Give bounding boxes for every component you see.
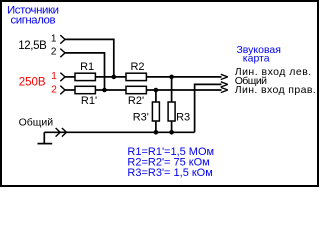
svg-text:Лин. вход прав.: Лин. вход прав. bbox=[235, 84, 316, 96]
node C junction rail1/R3 bbox=[169, 75, 174, 80]
wire: rail1 right segment R2 to arrow bbox=[146, 76, 221, 78]
resistor R2' bbox=[126, 86, 146, 93]
resistor R3' bbox=[152, 102, 159, 121]
svg-text:R2': R2' bbox=[128, 95, 144, 107]
wire: rail2 left segment R1' to R2' bbox=[95, 89, 126, 91]
resistor R1' bbox=[75, 86, 95, 93]
svg-text:1: 1 bbox=[51, 34, 57, 45]
ground bbox=[38, 132, 53, 143]
wire: R3 vertical feed bbox=[171, 77, 173, 132]
wire: 250V pin1 to R1 bbox=[65, 76, 75, 78]
resistor R3 bbox=[168, 102, 175, 121]
svg-text:сигналов: сигналов bbox=[11, 14, 56, 26]
svg-text:12,5В: 12,5В bbox=[18, 40, 47, 52]
connector pin 12,5V-2 bbox=[60, 49, 65, 58]
arrow to line input right bbox=[221, 87, 228, 92]
wire: 12,5V pin1 to rail1 bbox=[65, 39, 114, 76]
connector pin 12,5V-1 bbox=[60, 35, 65, 44]
node D junction rail2/R3' bbox=[154, 88, 159, 93]
node F junction ground rail/R3 bbox=[169, 130, 174, 135]
svg-text:2: 2 bbox=[51, 85, 57, 96]
wire: rail2 right segment R2' to arrow bbox=[146, 89, 221, 91]
svg-text:Общий: Общий bbox=[19, 117, 54, 129]
svg-text:R3=R3'= 1,5 кОм: R3=R3'= 1,5 кОм bbox=[127, 167, 212, 179]
wire: 12,5V pin2 to rail2 bbox=[65, 53, 105, 89]
node E junction ground rail/R3' bbox=[154, 130, 159, 135]
wire: R3' vertical feed bbox=[155, 90, 157, 132]
wire: 250V pin2 to R1' bbox=[65, 89, 75, 91]
wire: common branch up to arrow bbox=[195, 84, 222, 132]
svg-text:R3: R3 bbox=[176, 112, 190, 124]
svg-text:250В: 250В bbox=[19, 77, 46, 89]
wire: rail1 left segment R1 to R2 bbox=[95, 76, 126, 78]
svg-text:карта: карта bbox=[243, 53, 270, 65]
svg-text:2: 2 bbox=[51, 47, 57, 58]
svg-text:R1: R1 bbox=[80, 61, 94, 73]
connector pin 250V-2 bbox=[60, 86, 65, 95]
wire: ground input stub bbox=[44, 131, 60, 133]
resistor R1 bbox=[75, 73, 95, 80]
svg-text:R1': R1' bbox=[81, 95, 97, 107]
connector pin 250V-1 bbox=[60, 73, 65, 82]
resistor R2 bbox=[126, 73, 146, 80]
arrow to line input left bbox=[221, 74, 228, 79]
connector common double chevron bbox=[56, 128, 67, 137]
svg-text:R2: R2 bbox=[130, 61, 144, 73]
node B junction 12,5V-2/rail2 bbox=[102, 88, 107, 93]
node A junction 12,5V-1/rail1 bbox=[112, 75, 117, 80]
arrow to common bbox=[221, 82, 228, 87]
wire: ground rail bbox=[60, 131, 194, 133]
svg-text:1: 1 bbox=[51, 71, 57, 82]
svg-text:R3': R3' bbox=[133, 112, 149, 124]
